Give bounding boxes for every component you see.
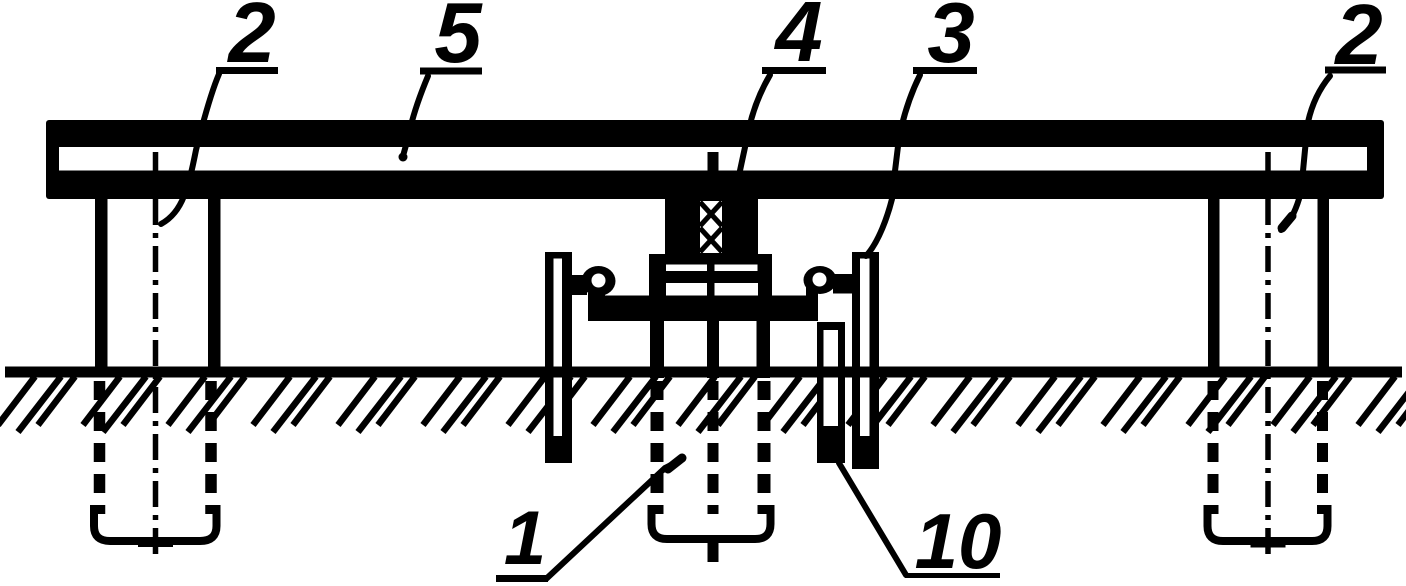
buried pile of right support 2 (dashed): [1208, 381, 1328, 541]
leader to label 2 right: [1281, 76, 1330, 230]
left pivot lug: [582, 266, 616, 296]
flange plate of jack: [649, 254, 772, 296]
label 1 underline: [496, 575, 548, 582]
soil blade 10: [817, 322, 845, 463]
screw jack housing 4: [665, 198, 758, 254]
platform beam 5: [46, 120, 1384, 199]
screw shank stub in beam web: [708, 152, 719, 172]
svg-text:3: 3: [927, 0, 974, 81]
axis centerline right support: [1251, 152, 1286, 559]
svg-text:5: 5: [434, 0, 483, 81]
frame crossbar 3: [602, 296, 818, 322]
ground hatching: [0, 377, 1406, 433]
leader to label 4: [732, 75, 770, 205]
left hanger link of frame 3: [545, 252, 572, 463]
buried pile of left support 2 (dashed): [94, 381, 217, 541]
svg-text:1: 1: [504, 496, 546, 581]
label 3 underline: [913, 67, 977, 74]
leader to label 1: [546, 459, 683, 579]
label 2 right underline: [1325, 67, 1386, 74]
central pile stem above ground: [650, 321, 664, 378]
leader to label 3: [866, 75, 920, 256]
leader to label 10: [839, 463, 906, 575]
svg-text:4: 4: [773, 0, 822, 80]
screw thread symbol: [700, 202, 722, 252]
left support column 2: [95, 199, 108, 377]
axis centerline left support: [138, 152, 173, 561]
label 2 left underline: [216, 67, 278, 74]
leader to label 5: [403, 76, 428, 156]
buried central pile 1 (dashed): [652, 381, 771, 539]
right support column 2: [1208, 199, 1220, 377]
svg-text:2: 2: [1333, 0, 1382, 83]
label 5 underline: [420, 68, 482, 75]
svg-text:10: 10: [915, 497, 1002, 585]
right hanger link of frame 3: [852, 252, 879, 469]
ground surface line: [5, 367, 1402, 378]
leader to label 2 left: [161, 74, 219, 224]
label 4 underline: [762, 67, 826, 74]
svg-text:2: 2: [226, 0, 275, 81]
central pile axis lower end: [708, 539, 719, 562]
right pivot lug: [804, 266, 837, 294]
label 10 underline: [905, 573, 1000, 578]
